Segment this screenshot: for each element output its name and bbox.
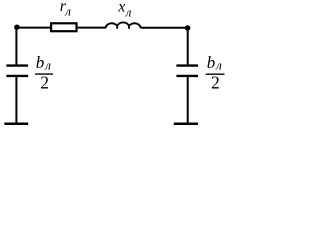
node dot right <box>185 25 191 31</box>
terminal bar bottom-right <box>174 123 198 126</box>
svg-text:b: b <box>36 53 45 72</box>
svg-text:л: л <box>64 4 71 19</box>
inductor cusp tick 2 <box>128 26 130 29</box>
wire: left vertical lower <box>15 76 17 124</box>
wire: right vertical lower <box>187 76 189 124</box>
wire: left vertical upper <box>15 28 17 65</box>
svg-text:л: л <box>215 58 222 73</box>
svg-text:л: л <box>44 58 51 73</box>
fraction bar left <box>35 73 53 75</box>
wire: top-left node to resistor <box>16 27 50 29</box>
svg-text:2: 2 <box>211 73 220 93</box>
terminal bar bottom-left <box>4 123 28 126</box>
svg-text:2: 2 <box>40 73 49 93</box>
capacitor C-right bottom plate <box>176 75 198 77</box>
node dot left <box>14 24 20 30</box>
fraction bar right <box>206 73 225 75</box>
inductor XL (3 humps) <box>106 22 141 28</box>
wire: right vertical upper <box>187 28 189 65</box>
capacitor C-right top plate <box>176 64 198 66</box>
svg-text:л: л <box>125 5 132 20</box>
wire: resistor to inductor <box>78 27 106 29</box>
svg-text:b: b <box>207 53 216 72</box>
inductor cusp tick 1 <box>116 26 118 29</box>
capacitor C-left top plate <box>6 64 28 66</box>
wire: inductor to top-right node <box>141 27 188 29</box>
capacitor C-left bottom plate <box>6 75 28 77</box>
svg-text:x: x <box>117 0 125 16</box>
resistor RL (box) <box>51 23 76 31</box>
